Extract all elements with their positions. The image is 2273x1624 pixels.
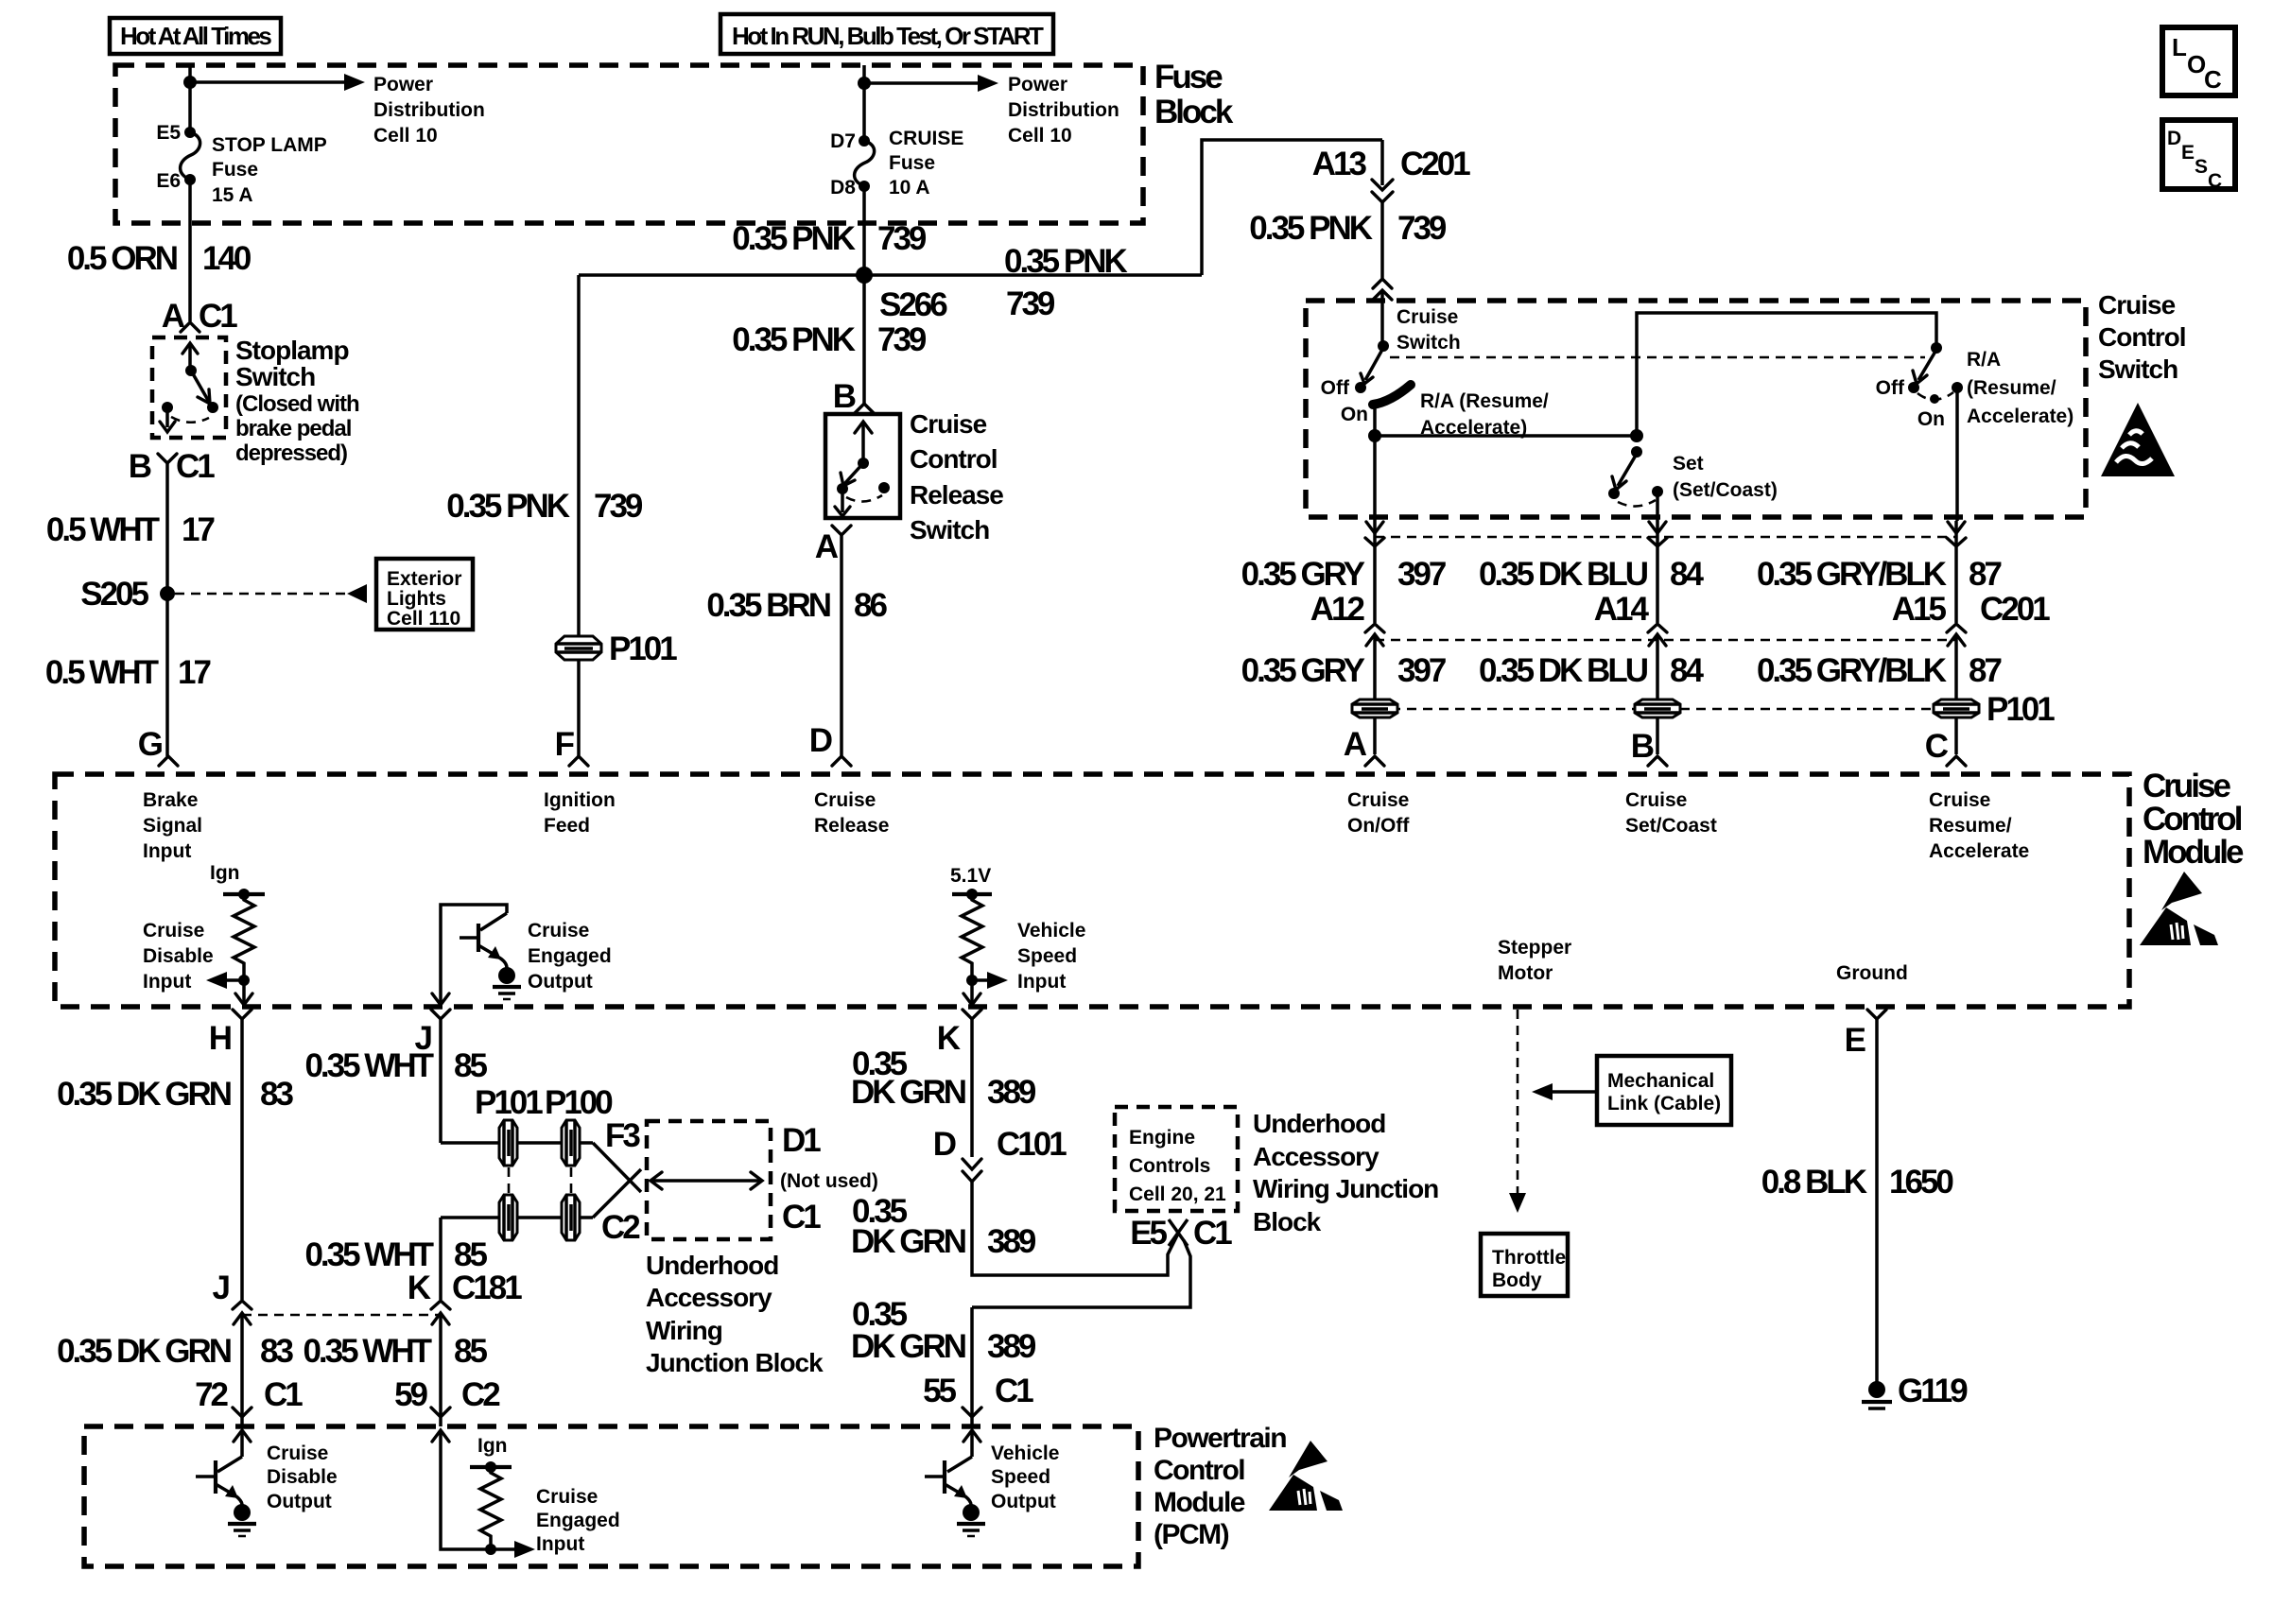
wire On to set-switch junction <box>1375 434 1637 438</box>
label Cruise Engaged Output <box>528 920 612 993</box>
svg-text:B: B <box>833 378 856 415</box>
svg-text:brake pedal: brake pedal <box>235 416 351 441</box>
svg-text:0.35 BRN: 0.35 BRN <box>706 587 829 624</box>
label Set (Set/Coast) <box>1673 453 1778 501</box>
label 0.35 PNK 739 (A13) <box>1249 210 1447 247</box>
resistor vehicle speed input with 5.1V rail <box>950 865 1008 989</box>
svg-text:0.35 GRY: 0.35 GRY <box>1241 556 1365 593</box>
wire K to PCM 59 <box>439 1313 442 1417</box>
svg-text:H: H <box>209 1020 231 1057</box>
svg-text:Hot At All Times: Hot At All Times <box>120 22 271 50</box>
label 0.35 GRY/BLK 87 (lower) <box>1757 652 2002 689</box>
svg-text:739: 739 <box>1006 285 1055 322</box>
svg-text:A15: A15 <box>1892 591 1947 628</box>
svg-text:0.35 DK GRN: 0.35 DK GRN <box>57 1333 231 1370</box>
connector C181 chevrons (K wire) <box>431 1301 450 1324</box>
svg-text:E6: E6 <box>156 170 181 192</box>
svg-text:Cruise: Cruise <box>814 789 876 811</box>
svg-text:E5: E5 <box>1130 1215 1167 1252</box>
stoplamp switch mechanism <box>160 343 218 432</box>
svg-text:Cruise: Cruise <box>536 1486 598 1508</box>
svg-text:DK GRN: DK GRN <box>851 1074 965 1111</box>
svg-text:(PCM): (PCM) <box>1154 1519 1229 1550</box>
connector P101 pass-through (upper) <box>499 1120 517 1166</box>
connector P101 pass-through (on/off wire) <box>1352 700 1397 717</box>
svg-text:Speed: Speed <box>1017 945 1077 967</box>
svg-text:Signal: Signal <box>143 815 202 837</box>
svg-text:Underhood: Underhood <box>646 1251 778 1280</box>
dashed stepper motor link <box>1509 1010 1526 1213</box>
label STOP LAMP Fuse 15 A <box>212 134 327 206</box>
svg-text:(Closed with: (Closed with <box>235 391 359 417</box>
svg-text:Cruise: Cruise <box>1625 789 1687 811</box>
wire into cruise switch box <box>1380 290 1384 346</box>
wire down to PCM 55 <box>970 1307 974 1417</box>
label 0.35 DK BLU 84 (lower) <box>1479 652 1705 689</box>
pin labels A12 A14 A15 C201 <box>1310 591 2050 628</box>
connector chevron at release switch B <box>855 404 874 413</box>
release switch mechanism <box>835 422 890 516</box>
svg-text:Wiring Junction: Wiring Junction <box>1253 1174 1438 1203</box>
connector chevron at module pin D <box>832 756 851 766</box>
svg-text:Control: Control <box>1154 1455 1244 1486</box>
wire arrow to Power Distribution (left) <box>190 74 365 91</box>
labels P101 P100 <box>475 1084 613 1121</box>
svg-text:O: O <box>2187 50 2206 78</box>
svg-text:0.35 DK GRN: 0.35 DK GRN <box>57 1076 231 1113</box>
svg-text:Engaged: Engaged <box>536 1510 620 1531</box>
dashed reference wire S205 to Exterior Lights <box>175 584 367 603</box>
svg-text:0.35 GRY/BLK: 0.35 GRY/BLK <box>1757 652 1947 689</box>
svg-text:Off: Off <box>1321 377 1350 399</box>
svg-text:Disable: Disable <box>143 945 214 967</box>
connector chevron at release switch A <box>832 526 851 535</box>
svg-text:Switch: Switch <box>1397 332 1461 354</box>
wire J to junction block upper run <box>441 1141 593 1145</box>
terminal X E5/C1 junction block <box>1169 1219 1188 1246</box>
svg-text:D8: D8 <box>830 177 856 199</box>
wire diagonal into X (lower) <box>593 1169 641 1218</box>
svg-text:Stepper: Stepper <box>1498 937 1571 959</box>
svg-text:C1: C1 <box>995 1373 1033 1409</box>
svg-text:15 A: 15 A <box>212 184 253 206</box>
labels Off / On (left switch) <box>1321 377 1368 425</box>
svg-text:Off: Off <box>1876 377 1905 399</box>
svg-text:397: 397 <box>1397 652 1446 689</box>
svg-text:5.1V: 5.1V <box>950 865 991 887</box>
label CRUISE Fuse 10 A <box>889 128 963 199</box>
svg-text:C2: C2 <box>461 1376 500 1413</box>
svg-text:On: On <box>1341 404 1368 425</box>
svg-text:Fuse: Fuse <box>212 159 258 181</box>
svg-text:DK GRN: DK GRN <box>851 1328 965 1365</box>
node junction at cruise feed <box>858 77 871 90</box>
wire module pin H drop <box>233 1010 252 1300</box>
connector P100 pass-through (lower) <box>562 1195 580 1240</box>
svg-text:0.35 WHT: 0.35 WHT <box>304 1236 433 1273</box>
wire cruise fuse output 0.35 PNK <box>862 186 866 405</box>
label 0.35 DK GRN 83 (lower) <box>57 1333 293 1370</box>
svg-text:0.35 PNK: 0.35 PNK <box>732 220 855 257</box>
fuse STOP LAMP 15A symbol <box>181 127 200 185</box>
label R/A (Resume/ Accelerate) (right) <box>1967 349 2073 427</box>
svg-text:Input: Input <box>1017 971 1066 993</box>
svg-text:87: 87 <box>1969 652 2001 689</box>
label Stepper Motor <box>1498 937 1571 984</box>
wire module pin H inside <box>235 980 252 1005</box>
svg-text:R/A: R/A <box>1967 349 2001 371</box>
connector chevron at stoplamp B <box>158 454 177 463</box>
label 0.35 DK BLU 84 (upper) <box>1479 556 1705 593</box>
label 0.35 PNK 739 (right of S266) <box>1004 243 1127 322</box>
svg-text:Ignition: Ignition <box>544 789 616 811</box>
svg-text:C1: C1 <box>199 298 237 335</box>
svg-text:Switch: Switch <box>910 515 989 544</box>
svg-text:C: C <box>1925 728 1949 765</box>
svg-text:0.5 ORN: 0.5 ORN <box>67 240 177 277</box>
label 0.35 WHT 85 (middle) <box>304 1236 487 1273</box>
label Cruise Disable Output <box>267 1443 338 1512</box>
label Underhood Accessory Wiring Junction Block (right) <box>1253 1109 1438 1236</box>
resistor cruise disable input with Ign rail <box>206 862 265 989</box>
pin A C1 labels (stoplamp switch) <box>162 298 238 335</box>
svg-text:Accessory: Accessory <box>646 1283 772 1312</box>
resistor cruise engaged input with Ign rail <box>470 1435 535 1558</box>
svg-text:0.35 PNK: 0.35 PNK <box>1004 243 1127 280</box>
svg-text:84: 84 <box>1670 556 1704 593</box>
svg-text:Ign: Ign <box>477 1435 508 1457</box>
ESD symbol (PCM) <box>1269 1441 1343 1511</box>
svg-text:Motor: Motor <box>1498 962 1553 984</box>
svg-text:C1: C1 <box>1193 1215 1232 1252</box>
wire riser to fuse block corner <box>1202 140 1382 275</box>
svg-text:0.5 WHT: 0.5 WHT <box>46 511 160 548</box>
connector chevron at stoplamp A <box>181 322 200 332</box>
wire module pin K drop <box>963 1010 981 1157</box>
svg-text:D: D <box>2167 128 2181 149</box>
connector C181 chevrons (H wire) <box>233 1301 252 1324</box>
svg-text:Cruise: Cruise <box>528 920 589 942</box>
wire top link set/RA <box>1637 313 1936 436</box>
svg-text:84: 84 <box>1670 652 1704 689</box>
svg-text:Disable: Disable <box>267 1466 338 1488</box>
svg-text:59: 59 <box>394 1376 427 1413</box>
svg-text:87: 87 <box>1969 556 2001 593</box>
svg-text:Distribution: Distribution <box>373 99 485 121</box>
svg-text:Cell 20, 21: Cell 20, 21 <box>1129 1183 1226 1205</box>
svg-text:0.35 PNK: 0.35 PNK <box>446 488 569 525</box>
svg-text:Switch: Switch <box>235 362 315 391</box>
header box "Hot At All Times" <box>110 18 281 54</box>
box cruise control module (dashed) <box>55 774 2129 1007</box>
svg-text:Release: Release <box>910 480 1003 510</box>
wire lower run down to C181 <box>439 1218 442 1300</box>
svg-text:Power: Power <box>1008 74 1067 95</box>
svg-text:K: K <box>408 1270 431 1306</box>
svg-text:E: E <box>2181 142 2195 164</box>
svg-text:Speed: Speed <box>991 1466 1050 1488</box>
svg-text:On/Off: On/Off <box>1347 815 1410 837</box>
wire H to PCM 72 <box>240 1313 244 1417</box>
wire into PCM top (55) <box>970 1417 974 1426</box>
label Underhood Accessory Wiring Junction Block (left) <box>646 1251 824 1377</box>
svg-text:C201: C201 <box>1980 591 2050 628</box>
transistor cruise engaged output <box>432 905 521 1005</box>
box LOC legend <box>2162 27 2235 95</box>
svg-text:Stoplamp: Stoplamp <box>235 336 349 365</box>
label 0.35 DK GRN 389 (upper) <box>851 1045 1036 1111</box>
pin labels 55 C1 <box>923 1373 1033 1409</box>
svg-text:739: 739 <box>877 321 927 358</box>
svg-text:Engine: Engine <box>1129 1127 1195 1149</box>
svg-text:0.8 BLK: 0.8 BLK <box>1761 1164 1867 1201</box>
svg-text:0.5 WHT: 0.5 WHT <box>45 654 159 691</box>
pin labels J K C181 <box>213 1270 523 1306</box>
label 0.35 PNK 739 (below S266) <box>732 321 927 358</box>
svg-text:Input: Input <box>143 840 191 862</box>
label 0.5 WHT 17 lower <box>45 654 211 691</box>
svg-text:A12: A12 <box>1310 591 1365 628</box>
svg-text:P101: P101 <box>609 631 677 667</box>
wire 0.5 WHT 17 upper <box>165 463 169 756</box>
svg-text:F: F <box>555 726 575 763</box>
svg-text:0.35 WHT: 0.35 WHT <box>304 1047 433 1084</box>
arrow Mechanical Link to stepper link <box>1532 1083 1597 1100</box>
label Cruise Control Switch (title) <box>2098 290 2186 384</box>
label 0.35 DK GRN 389 (lower) <box>851 1296 1036 1365</box>
wire cruise fuse feed <box>862 65 866 141</box>
svg-text:Cell 110: Cell 110 <box>387 608 460 630</box>
connector chevron at module pin E <box>1867 1010 1886 1019</box>
pin labels D C101 <box>933 1126 1067 1163</box>
label 0.35 PNK 739 (above S266) <box>732 220 927 257</box>
svg-text:83: 83 <box>260 1076 293 1113</box>
connector chevron PCM 59 <box>431 1408 450 1417</box>
wires into PCM top <box>242 1417 441 1426</box>
connector double chevron entering cruise switch <box>1373 279 1392 300</box>
svg-text:1650: 1650 <box>1889 1164 1953 1201</box>
svg-text:D: D <box>809 722 832 759</box>
svg-text:Exterior: Exterior <box>387 568 461 590</box>
svg-text:0.35 PNK: 0.35 PNK <box>732 321 855 358</box>
box DESC legend <box>2162 120 2235 192</box>
svg-text:83: 83 <box>260 1333 293 1370</box>
set switch mechanism <box>1608 446 1663 507</box>
label 0.35 DK GRN 83 (upper) <box>57 1076 293 1113</box>
fuse CRUISE 10A symbol <box>855 135 875 192</box>
wire 0.35 BRN 86 <box>840 535 843 756</box>
svg-text:Module: Module <box>1154 1487 1245 1518</box>
svg-text:Underhood: Underhood <box>1253 1109 1385 1138</box>
wire set output <box>1656 492 1659 521</box>
svg-text:Block: Block <box>1154 94 1234 130</box>
svg-text:389: 389 <box>987 1328 1036 1365</box>
svg-text:Vehicle: Vehicle <box>991 1443 1059 1464</box>
connector P101 pass-through (set wire) <box>1635 700 1680 717</box>
svg-text:Link (Cable): Link (Cable) <box>1607 1093 1721 1114</box>
svg-text:A13: A13 <box>1312 146 1367 182</box>
label 0.35 PNK 739 (ignition feed) <box>446 488 643 525</box>
svg-text:depressed): depressed) <box>235 441 347 466</box>
pin A13 C201 labels <box>1312 146 1470 182</box>
svg-text:B: B <box>129 448 151 485</box>
label 0.35 GRY/BLK 87 (upper) <box>1757 556 2002 593</box>
svg-text:389: 389 <box>987 1074 1036 1111</box>
label Cruise Release <box>814 789 889 837</box>
svg-text:Release: Release <box>814 815 889 837</box>
svg-text:Cruise: Cruise <box>267 1443 328 1464</box>
ESD symbol (cruise control module) <box>2140 872 2218 945</box>
label Cruise Set/Coast <box>1625 789 1717 837</box>
svg-text:Control: Control <box>2098 322 2186 352</box>
label 0.8 BLK 1650 <box>1761 1164 1954 1201</box>
svg-text:C101: C101 <box>997 1126 1067 1163</box>
svg-text:Input: Input <box>536 1533 584 1555</box>
wire cruise on/off output <box>1373 436 1377 521</box>
svg-text:Vehicle: Vehicle <box>1017 920 1085 942</box>
label Cruise Control Module (title) <box>2143 768 2244 871</box>
header box "Hot In RUN, Bulb Test, Or START" <box>720 14 1053 54</box>
svg-text:Control: Control <box>2143 801 2242 838</box>
wire cruise on/off (GRY 397) below switch box <box>1373 521 1377 546</box>
svg-text:On: On <box>1917 408 1945 430</box>
svg-text:17: 17 <box>182 511 214 548</box>
svg-text:(Not used): (Not used) <box>780 1170 878 1192</box>
svg-text:C1: C1 <box>782 1199 821 1235</box>
wire diagonal into X (upper) <box>593 1143 641 1192</box>
svg-text:10 A: 10 A <box>889 177 930 199</box>
wire 0.8 BLK 1650 <box>1875 1019 1879 1383</box>
label Vehicle Speed Output <box>991 1443 1059 1512</box>
wire stop lamp fuse feed <box>188 65 192 132</box>
svg-text:0.35 DK BLU: 0.35 DK BLU <box>1479 556 1648 593</box>
wire R/A output <box>1955 388 1959 521</box>
box Mechanical Link (Cable) <box>1597 1056 1731 1125</box>
label Cruise On/Off <box>1347 789 1410 837</box>
svg-text:55: 55 <box>923 1373 956 1409</box>
connector C201 double chevron <box>1372 180 1393 202</box>
svg-text:739: 739 <box>1397 210 1447 247</box>
connector P101 pass-through (lower) <box>499 1195 517 1240</box>
svg-text:Resume/: Resume/ <box>1929 815 2012 837</box>
label Ignition Feed <box>544 789 616 837</box>
svg-text:Cruise: Cruise <box>1397 306 1458 328</box>
svg-text:Feed: Feed <box>544 815 590 837</box>
node junction at stop lamp feed <box>183 76 197 89</box>
label Powertrain Control Module (PCM) <box>1154 1423 1286 1550</box>
svg-text:Cell 10: Cell 10 <box>373 125 438 147</box>
svg-text:72: 72 <box>195 1376 228 1413</box>
svg-text:D: D <box>933 1126 956 1163</box>
box Engine Controls Cell 20, 21 (dashed) <box>1115 1107 1238 1211</box>
pin labels A B C (module top) <box>1344 726 1949 765</box>
box cruise control release switch <box>825 414 900 518</box>
pin labels E5 C1 <box>1130 1215 1232 1252</box>
svg-text:P101: P101 <box>1987 691 2055 728</box>
svg-text:397: 397 <box>1397 556 1446 593</box>
svg-text:Hot In RUN, Bulb Test, Or STAR: Hot In RUN, Bulb Test, Or START <box>732 22 1044 50</box>
svg-text:Fuse: Fuse <box>889 152 935 174</box>
label Vehicle Speed Input <box>1017 920 1085 993</box>
node S266 <box>856 267 947 323</box>
label Cruise Control Release Switch <box>910 409 1003 544</box>
connector P101 pass-through on ignition feed <box>556 631 677 667</box>
svg-text:J: J <box>213 1270 230 1306</box>
label Cruise Resume/ Accelerate <box>1929 789 2029 862</box>
connector chevron PCM 72 <box>233 1408 252 1417</box>
svg-text:85: 85 <box>454 1047 487 1084</box>
svg-text:0.35 PNK: 0.35 PNK <box>1249 210 1372 247</box>
svg-text:Control: Control <box>910 444 998 474</box>
label 0.35 GRY 397 (lower) <box>1241 652 1446 689</box>
svg-text:Cell 10: Cell 10 <box>1008 125 1072 147</box>
svg-text:389: 389 <box>987 1223 1036 1260</box>
svg-text:P101: P101 <box>475 1084 543 1121</box>
svg-text:S: S <box>2195 156 2208 178</box>
svg-text:Ign: Ign <box>210 862 240 884</box>
svg-text:Accelerate): Accelerate) <box>1967 406 2073 427</box>
cruise on/off switch mechanism <box>1355 340 1411 442</box>
svg-text:Input: Input <box>143 971 191 993</box>
transistor cruise disable output <box>196 1430 256 1536</box>
svg-text:Cruise: Cruise <box>2143 768 2230 804</box>
svg-text:Cruise: Cruise <box>1929 789 1990 811</box>
label 0.35 WHT 85 (lower) <box>303 1333 487 1370</box>
svg-text:Throttle: Throttle <box>1492 1247 1566 1269</box>
svg-text:0.35 WHT: 0.35 WHT <box>303 1333 431 1370</box>
double arrow D1 not used <box>651 1172 762 1189</box>
wire arrow to Power Distribution (right) <box>864 75 998 92</box>
svg-text:A: A <box>815 528 839 565</box>
ESD symbol (cruise control switch) <box>2101 403 2175 476</box>
label R/A (Resume/ Accelerate) (left) <box>1420 390 1549 439</box>
wire S266 horizontal run <box>579 273 1202 277</box>
transistor vehicle speed output <box>925 1430 985 1536</box>
svg-text:Output: Output <box>528 971 593 993</box>
svg-text:739: 739 <box>877 220 927 257</box>
svg-text:Switch: Switch <box>2098 354 2178 384</box>
svg-text:Output: Output <box>267 1491 332 1512</box>
fuse block label <box>1154 59 1234 130</box>
connector row P101 dashed link <box>1375 708 1956 711</box>
svg-text:D1: D1 <box>782 1122 821 1159</box>
box Exterior Lights Cell 110 <box>376 559 473 630</box>
svg-text:CRUISE: CRUISE <box>889 128 963 149</box>
svg-text:140: 140 <box>202 240 252 277</box>
label 0.5 ORN 140 <box>67 240 252 277</box>
wire C101 to junction run <box>972 1182 1178 1275</box>
svg-text:STOP LAMP: STOP LAMP <box>212 134 327 156</box>
label Power Distribution Cell 10 (left) <box>373 74 485 147</box>
label 0.35 BRN 86 <box>706 587 887 624</box>
svg-text:0.35 DK BLU: 0.35 DK BLU <box>1479 652 1648 689</box>
svg-text:Body: Body <box>1492 1270 1542 1291</box>
labels D1 (Not used) C1 <box>780 1122 878 1235</box>
svg-text:17: 17 <box>178 654 210 691</box>
svg-text:K: K <box>937 1020 961 1057</box>
svg-text:Brake: Brake <box>143 789 198 811</box>
svg-text:0.35 GRY: 0.35 GRY <box>1241 652 1365 689</box>
svg-text:(Set/Coast): (Set/Coast) <box>1673 479 1778 501</box>
wire junction block to PCM run <box>972 1240 1190 1307</box>
svg-text:DK GRN: DK GRN <box>851 1223 965 1260</box>
dashed link C181 <box>242 1314 441 1317</box>
svg-text:Controls: Controls <box>1129 1155 1210 1177</box>
svg-text:S205: S205 <box>80 576 148 613</box>
label Stoplamp Switch (Closed with brake pedal depressed) <box>235 336 359 466</box>
node at set switch top <box>1630 429 1643 442</box>
svg-text:Powertrain: Powertrain <box>1154 1423 1286 1454</box>
